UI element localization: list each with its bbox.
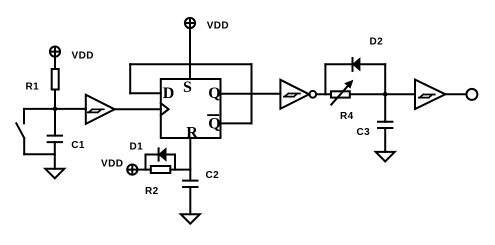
wire D2 branch left vertical xyxy=(324,64,326,94)
svg-text:R4: R4 xyxy=(340,111,354,122)
wire VDD1 to R1 xyxy=(54,57,56,69)
resistor R2 xyxy=(151,166,171,173)
wire U3 out to R4 xyxy=(316,93,330,95)
svg-text:R1: R1 xyxy=(26,82,40,93)
svg-text:C1: C1 xyxy=(71,140,85,151)
resistor R1 xyxy=(52,69,59,90)
op-amp U3 schmitt inverter xyxy=(280,80,316,109)
wire feedback left vertical xyxy=(129,64,131,93)
capacitor C3 xyxy=(378,122,392,128)
pin label Qbar xyxy=(208,115,221,133)
flip-flop U2 box xyxy=(161,79,221,138)
wire main left rail xyxy=(24,108,86,110)
svg-text:D: D xyxy=(163,85,175,102)
wire D1 branch right vertical xyxy=(174,155,176,170)
wire D1 branch left vertical xyxy=(145,155,147,170)
wire R1 to node A xyxy=(54,90,56,109)
wire C1 to ground xyxy=(54,142,56,169)
node B junction dot xyxy=(383,92,388,97)
svg-text:VDD: VDD xyxy=(101,159,123,170)
power VDD1 symbol xyxy=(50,47,60,57)
svg-text:D1: D1 xyxy=(130,142,144,153)
wire R2 to R pin column xyxy=(170,169,190,171)
wire feedback D input xyxy=(130,92,161,94)
op-amp U1 schmitt buffer xyxy=(86,95,115,124)
output terminal xyxy=(466,89,477,100)
capacitor C2 xyxy=(183,181,197,187)
svg-text:VDD: VDD xyxy=(207,21,229,32)
wire Qbar to feedback xyxy=(221,122,252,124)
variable resistor R4 xyxy=(331,81,353,105)
svg-text:C2: C2 xyxy=(206,170,220,181)
svg-text:D2: D2 xyxy=(370,37,384,48)
switch xyxy=(16,109,24,154)
wire U4 to output terminal xyxy=(445,93,466,95)
svg-text:S: S xyxy=(183,79,192,96)
wire D2 branch right vertical xyxy=(384,64,386,94)
wire VDD2 to S pin xyxy=(189,28,191,79)
ground (C1) xyxy=(45,169,64,179)
wire U1 to CLK xyxy=(115,108,161,110)
svg-text:C3: C3 xyxy=(357,127,371,138)
wire C3 to ground xyxy=(384,128,386,152)
wire VDD3 to R2 xyxy=(137,169,151,171)
wire feedback top xyxy=(130,63,251,65)
wire node A to C1 xyxy=(54,109,56,136)
wire D1 branch top left xyxy=(146,154,159,156)
wire D2 branch top left xyxy=(325,63,352,65)
diode D1 xyxy=(159,148,166,160)
node A junction dot xyxy=(53,107,58,112)
wire node B to C3 xyxy=(384,94,386,122)
ground (C2) xyxy=(181,214,200,224)
wire switch to C1 ground column xyxy=(24,153,55,155)
svg-text:Q: Q xyxy=(208,116,220,133)
diode D2 xyxy=(353,58,360,71)
capacitor C1 xyxy=(48,136,62,143)
wire R pin down xyxy=(189,138,191,181)
svg-text:VDD: VDD xyxy=(72,51,94,62)
wire R4 to node B xyxy=(350,93,385,95)
op-amp U4 schmitt buffer xyxy=(415,80,445,109)
ground (C3) xyxy=(376,152,395,162)
power VDD2 symbol xyxy=(185,18,195,28)
wire feedback right vertical xyxy=(251,64,253,123)
svg-text:Q: Q xyxy=(208,85,220,102)
svg-text:R2: R2 xyxy=(145,186,159,197)
wire Q to U3 xyxy=(221,93,281,95)
power VDD3 symbol xyxy=(127,165,137,175)
pin CLK wedge xyxy=(161,103,169,115)
svg-text:R: R xyxy=(186,125,198,142)
wire D1 branch top right xyxy=(166,154,175,156)
wire node B to U4 xyxy=(385,93,415,95)
wire D2 branch top right xyxy=(360,63,385,65)
wire C2 to ground xyxy=(189,187,191,214)
